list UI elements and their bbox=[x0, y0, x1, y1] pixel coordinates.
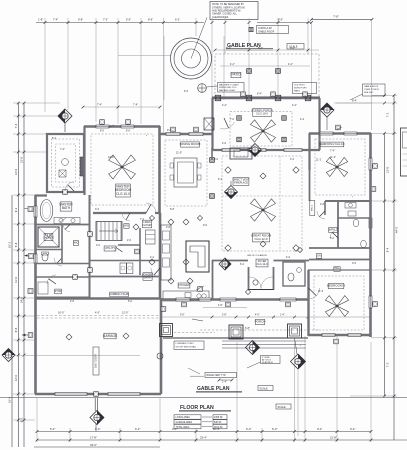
bedroom2 fan bbox=[326, 157, 347, 176]
closet label bbox=[142, 220, 152, 228]
bedroom2 ceiling dash bbox=[315, 139, 365, 195]
svg-text:FLOOR PLAN: FLOOR PLAN bbox=[180, 405, 214, 411]
svg-text:9'-2: 9'-2 bbox=[20, 417, 24, 422]
svg-text:4'-0": 4'-0" bbox=[95, 312, 100, 315]
pantry door bbox=[151, 268, 160, 277]
bath band labels bbox=[316, 228, 337, 259]
bedroom2 dim bbox=[330, 150, 353, 198]
dim ext left l2 bbox=[13, 133, 46, 136]
dining top windows bbox=[166, 127, 203, 135]
washer dryer bbox=[120, 263, 133, 274]
svg-text:2'-8": 2'-8" bbox=[222, 314, 227, 316]
kitchen south wall bbox=[160, 298, 309, 300]
svg-text:SCALE: SCALE bbox=[260, 388, 269, 391]
svg-text:8'-4": 8'-4" bbox=[352, 98, 357, 102]
svg-text:44'-0: 44'-0 bbox=[395, 227, 399, 233]
svg-text:9'-4": 9'-4" bbox=[350, 427, 355, 431]
svg-text:LINE OF CLG ABOVE: LINE OF CLG ABOVE bbox=[247, 254, 267, 257]
master bedroom label bbox=[115, 184, 132, 197]
great room fireplace bbox=[230, 148, 252, 185]
dim extension top ext d bbox=[117, 18, 120, 124]
dim ext left l3 bbox=[13, 151, 46, 154]
wc door bbox=[54, 258, 62, 266]
entry door arcs bbox=[250, 277, 273, 289]
bedroom2 side window bbox=[369, 158, 377, 170]
svg-text:2'-8: 2'-8 bbox=[70, 300, 75, 303]
master bedroom door bbox=[146, 203, 156, 213]
utility label bbox=[104, 246, 116, 251]
south wall tags bbox=[182, 302, 291, 307]
screen porch label bbox=[251, 108, 273, 116]
dining table bbox=[170, 158, 201, 187]
svg-text:8'-6": 8'-6" bbox=[148, 18, 153, 22]
utility cell walls bbox=[90, 228, 160, 277]
bedroom2 window tags bbox=[336, 125, 376, 191]
bedroom3 door bbox=[309, 288, 320, 299]
dimension line left a bbox=[17, 103, 19, 447]
svg-text:SLAB BLW: SLAB BLW bbox=[262, 361, 274, 364]
svg-text:7'-4": 7'-4" bbox=[97, 104, 102, 107]
dining east posts bbox=[210, 148, 215, 198]
stair treads bbox=[96, 222, 122, 241]
bedroom2 left wall bbox=[308, 133, 310, 170]
appliance note bbox=[124, 224, 139, 230]
dimension line bottom c bbox=[34, 446, 160, 448]
entry threshold bbox=[249, 289, 274, 291]
dining ceiling dash bbox=[165, 140, 207, 206]
svg-text:11'-0: 11'-0 bbox=[14, 277, 18, 283]
svg-text:1'-4": 1'-4" bbox=[280, 314, 285, 316]
svg-text:4'-2": 4'-2" bbox=[292, 104, 297, 107]
turret tag bbox=[198, 84, 218, 93]
left wall window tag bbox=[25, 207, 34, 294]
svg-text:OLD TEST: OLD TEST bbox=[294, 85, 305, 87]
master bedroom windows top bbox=[96, 125, 134, 128]
powder label bbox=[142, 273, 153, 281]
column dim bbox=[245, 327, 301, 347]
bath band wall top bbox=[325, 200, 371, 202]
dim ext left l5 bbox=[13, 223, 35, 226]
svg-text:6'-0": 6'-0" bbox=[272, 427, 277, 431]
dim text top1 bbox=[38, 18, 283, 22]
master bedroom top wall bbox=[84, 125, 160, 128]
master bedroom dim bbox=[82, 104, 162, 159]
dim ext bottom b5 bbox=[195, 428, 198, 442]
dim extension top ext i bbox=[224, 18, 227, 54]
dim ext bottom b3 bbox=[119, 428, 122, 442]
svg-text:BEDROOM 2 CLG 9-0: BEDROOM 2 CLG 9-0 bbox=[319, 143, 345, 146]
svg-text:7'-0: 7'-0 bbox=[230, 118, 235, 121]
svg-text:LOWERED CONC.: LOWERED CONC. bbox=[176, 343, 195, 345]
dim ext bottom b9 bbox=[304, 336, 307, 442]
bedroom2 right wall bbox=[369, 133, 372, 201]
svg-text:x: x bbox=[352, 196, 353, 198]
dim extension top ext f bbox=[162, 18, 165, 134]
wic wall bbox=[61, 225, 63, 264]
svg-text:7'-2: 7'-2 bbox=[140, 218, 145, 221]
dim ext bottom b6 bbox=[236, 342, 239, 442]
svg-text:6'-2": 6'-2" bbox=[175, 18, 180, 22]
screen porch windows bbox=[222, 149, 302, 152]
garage side tag bbox=[22, 333, 33, 338]
gable note bbox=[188, 368, 237, 383]
dim ext right r7 bbox=[350, 395, 397, 398]
scale box floor bbox=[276, 404, 291, 409]
svg-text:4'-2": 4'-2" bbox=[230, 63, 235, 66]
svg-text:11'-2": 11'-2" bbox=[330, 156, 336, 159]
porch door to dining bbox=[220, 118, 234, 129]
master bedroom bottom wall bbox=[93, 212, 160, 214]
kitchen label bbox=[178, 283, 190, 288]
hall tag bbox=[135, 249, 140, 254]
svg-text:9'-2: 9'-2 bbox=[14, 207, 18, 212]
bath band toilets bbox=[353, 219, 366, 248]
garage vertical label bbox=[93, 347, 99, 375]
mud room bbox=[35, 275, 90, 294]
svg-text:7'-2: 7'-2 bbox=[386, 112, 390, 117]
dimension line left b bbox=[23, 103, 25, 447]
svg-text:AT STLO: AT STLO bbox=[262, 359, 271, 362]
foyer walls bbox=[212, 260, 309, 299]
svg-text:BATH: BATH bbox=[144, 276, 150, 279]
dim text right bbox=[386, 112, 399, 367]
screen porch ceiling dash bbox=[230, 112, 292, 147]
patio dim line bbox=[214, 46, 319, 52]
svg-text:5-0 SQ: 5-0 SQ bbox=[45, 235, 52, 237]
section marker top left bbox=[58, 109, 72, 132]
patio dim mid bbox=[220, 63, 310, 66]
dim ext left l1 bbox=[13, 115, 60, 118]
porch wall tags bbox=[241, 92, 308, 97]
garage door marker bbox=[90, 392, 104, 432]
garage curb dash bbox=[37, 316, 160, 319]
svg-text:33'-0": 33'-0" bbox=[90, 443, 97, 447]
svg-text:13'-6: 13'-6 bbox=[386, 167, 390, 173]
turret radial bbox=[191, 18, 207, 59]
bedroom3 window tag bbox=[334, 339, 339, 344]
patio outline bbox=[215, 54, 319, 98]
bedroom3 bottom windows bbox=[322, 334, 361, 337]
great room ceiling dash bbox=[222, 156, 302, 251]
master bath fixtures bbox=[59, 148, 68, 177]
garage right wall bbox=[160, 298, 163, 394]
master closet shelves bbox=[63, 157, 84, 194]
porch column c bbox=[288, 324, 302, 338]
svg-text:11'-6: 11'-6 bbox=[318, 290, 324, 293]
patio divider b bbox=[277, 54, 279, 98]
dim extension top m bbox=[310, 21, 313, 100]
bedroom2 label bbox=[319, 142, 345, 147]
interior dims bbox=[52, 90, 357, 303]
svg-text:WIC: WIC bbox=[74, 241, 79, 244]
svg-text:6'-0": 6'-0" bbox=[246, 427, 251, 431]
note box top bbox=[210, 2, 258, 20]
porch note bbox=[247, 356, 280, 369]
scale box bottom a bbox=[258, 386, 273, 391]
porch marker ext bbox=[297, 370, 299, 436]
cupola note bbox=[249, 26, 289, 34]
dim ext bottom b11 bbox=[370, 342, 373, 442]
svg-text:STOR: STOR bbox=[55, 290, 62, 293]
svg-text:4'-2: 4'-2 bbox=[150, 256, 155, 259]
svg-text:1'-4": 1'-4" bbox=[222, 380, 227, 383]
master bedroom fan bbox=[109, 155, 136, 179]
svg-text:14'-6: 14'-6 bbox=[14, 169, 18, 175]
foyer label bbox=[247, 254, 268, 267]
dim ext right r1 bbox=[372, 94, 397, 97]
screen porch left wall bbox=[211, 98, 213, 150]
master bath block ceiling dash bbox=[52, 139, 80, 187]
marker porch right bbox=[291, 338, 306, 369]
dim extension top ext a bbox=[44, 18, 47, 112]
misc leader marks bbox=[60, 125, 342, 295]
kitchen diamonds bbox=[149, 219, 193, 284]
svg-text:SEE DET.: SEE DET. bbox=[364, 92, 374, 94]
dim ext left l4 bbox=[13, 194, 35, 197]
svg-text:BATH: BATH bbox=[62, 206, 71, 210]
svg-text:CLEARANCES.: CLEARANCES. bbox=[212, 16, 229, 19]
svg-text:LIVING AREA: LIVING AREA bbox=[176, 416, 191, 419]
dim ext bottom b10 bbox=[336, 336, 339, 442]
garage marks bbox=[58, 312, 129, 340]
linen cabinet bbox=[146, 230, 156, 244]
svg-text:16'-0": 16'-0" bbox=[58, 312, 64, 315]
svg-text:9'-0: 9'-0 bbox=[167, 129, 172, 132]
left connector bbox=[13, 102, 60, 105]
great room col dashes bbox=[222, 156, 302, 250]
title gable plan bottom bbox=[196, 386, 242, 392]
dim ext right r4 bbox=[371, 200, 397, 203]
svg-text:5'-0: 5'-0 bbox=[128, 300, 133, 303]
master suite hall wall bbox=[89, 195, 91, 298]
svg-text:8'-0": 8'-0" bbox=[226, 46, 231, 50]
svg-text:1'-8": 1'-8" bbox=[38, 18, 43, 22]
marker left edge bbox=[2, 349, 140, 362]
toilet bbox=[42, 252, 49, 261]
svg-text:SHOWER: SHOWER bbox=[43, 238, 54, 240]
title floor plan bbox=[179, 405, 231, 412]
svg-text:5'-2: 5'-2 bbox=[52, 137, 57, 140]
svg-text:RIDGE VENT TYP.: RIDGE VENT TYP. bbox=[207, 375, 227, 377]
svg-text:4'-4: 4'-4 bbox=[300, 118, 305, 121]
garage label above bbox=[109, 292, 129, 297]
dim extension top n bbox=[371, 19, 373, 130]
legend box right bbox=[401, 128, 407, 176]
great room diamonds bbox=[225, 167, 299, 251]
svg-text:CLOSET: CLOSET bbox=[142, 224, 152, 227]
svg-text:14'-8": 14'-8" bbox=[108, 156, 114, 159]
svg-text:4'-0": 4'-0" bbox=[255, 314, 260, 316]
kitchen west wall bbox=[159, 213, 162, 299]
svg-text:8'-0": 8'-0" bbox=[258, 46, 263, 50]
screen porch top wall bbox=[212, 97, 320, 98]
svg-text:16x7 DOOR: 16x7 DOOR bbox=[95, 354, 98, 368]
svg-text:MAX WEST COAST: MAX WEST COAST bbox=[219, 83, 239, 86]
svg-text:7'-4": 7'-4" bbox=[133, 104, 138, 107]
corridor dim row bbox=[161, 305, 371, 321]
linen wall bbox=[35, 263, 90, 265]
dim extension top ext h bbox=[211, 18, 214, 100]
master bedroom right wall bbox=[158, 126, 161, 214]
dim ext right r6 bbox=[371, 336, 397, 339]
dim ext left l6 bbox=[13, 249, 35, 252]
porch label bbox=[255, 319, 266, 324]
svg-text:21'-8: 21'-8 bbox=[20, 157, 24, 163]
svg-text:7'-4": 7'-4" bbox=[330, 150, 335, 153]
svg-text:9'-4: 9'-4 bbox=[386, 247, 390, 252]
svg-text:PORCH: PORCH bbox=[255, 320, 266, 324]
dining niche bbox=[204, 118, 214, 130]
dim ext right r2 bbox=[336, 102, 397, 105]
dimension line top bbox=[36, 22, 311, 24]
hall walls b bbox=[90, 260, 160, 262]
svg-text:STOOP SEE DETAIL: STOOP SEE DETAIL bbox=[176, 346, 197, 349]
bedroom3 left wall bbox=[307, 270, 309, 336]
svg-text:GABLE ROOF: GABLE ROOF bbox=[258, 31, 275, 34]
kitchen counters bbox=[163, 287, 209, 301]
dim ext bottom b4 bbox=[159, 398, 162, 442]
svg-text:8'-4": 8'-4" bbox=[257, 93, 262, 96]
svg-text:17'-8": 17'-8" bbox=[90, 436, 97, 440]
dim ext bottom b2 bbox=[69, 428, 72, 442]
dressing door bbox=[122, 213, 130, 221]
dim text bottom1 bbox=[50, 427, 355, 431]
floor plan area rows bbox=[174, 415, 227, 429]
screen porch posts bbox=[215, 95, 310, 100]
marker bedroom2 top bbox=[320, 98, 372, 130]
kitchen island bbox=[186, 241, 209, 272]
garage top wall bbox=[35, 297, 161, 299]
dim ext bottom b7 bbox=[261, 428, 264, 442]
svg-text:3104 SF: 3104 SF bbox=[214, 427, 223, 429]
svg-text:9'-6: 9'-6 bbox=[203, 224, 208, 227]
great room fan bbox=[251, 199, 276, 221]
svg-text:23'-4": 23'-4" bbox=[200, 436, 207, 440]
bedroom3 side window bbox=[369, 296, 377, 308]
note box left of porch bbox=[218, 83, 245, 93]
master bath door bbox=[65, 182, 74, 191]
svg-text:GARAGE: GARAGE bbox=[103, 334, 118, 338]
svg-text:SURV PORT: SURV PORT bbox=[294, 88, 307, 90]
svg-text:2456 SF: 2456 SF bbox=[214, 417, 223, 419]
dim ext left l10 bbox=[13, 339, 35, 342]
svg-text:3'-0: 3'-0 bbox=[96, 244, 101, 247]
bedroom3 label bbox=[327, 283, 345, 288]
svg-text:4'-8: 4'-8 bbox=[320, 203, 325, 206]
garage label bbox=[103, 333, 118, 339]
svg-text:KITCHEN: KITCHEN bbox=[178, 283, 190, 287]
marker porch left bbox=[246, 341, 260, 355]
dim text bottom2 bbox=[90, 436, 337, 440]
great room label bbox=[251, 233, 272, 242]
bedroom3 bottom wall bbox=[308, 334, 371, 337]
turret circle mid bbox=[174, 42, 208, 76]
dim ext left l12 bbox=[13, 393, 35, 396]
dim extension top ext b bbox=[67, 18, 70, 110]
marker great bbox=[225, 181, 238, 199]
bedroom3 ceiling dash bbox=[314, 276, 364, 330]
dimension line bottom a bbox=[37, 431, 371, 433]
svg-text:CLG 10-0: CLG 10-0 bbox=[116, 192, 130, 196]
bath band walls bbox=[309, 170, 371, 248]
bedroom2 windows bbox=[320, 132, 357, 135]
svg-text:CLG 10-0: CLG 10-0 bbox=[256, 112, 268, 116]
master bedroom left wall bbox=[83, 126, 85, 195]
dim ext left l8 bbox=[13, 297, 35, 300]
dim ext bottom b8 bbox=[293, 342, 296, 442]
dim ext left l11 bbox=[7, 354, 25, 357]
svg-text:6'-4: 6'-4 bbox=[218, 178, 223, 181]
svg-text:SCALE: SCALE bbox=[278, 406, 287, 409]
title gable plan top bbox=[226, 43, 273, 50]
svg-text:11'-0": 11'-0" bbox=[176, 151, 182, 154]
svg-text:FANS: FANS bbox=[294, 90, 300, 93]
dimension line bottom b bbox=[37, 439, 407, 441]
garage left label bbox=[55, 289, 62, 294]
svg-text:4'-6: 4'-6 bbox=[222, 142, 227, 145]
svg-text:LIN: LIN bbox=[317, 254, 321, 257]
svg-text:3'-2: 3'-2 bbox=[290, 158, 295, 161]
svg-text:24'-0: 24'-0 bbox=[20, 297, 24, 303]
svg-text:DINING ROOM: DINING ROOM bbox=[180, 142, 201, 146]
turret circle inner bbox=[182, 49, 201, 68]
svg-text:9'-0": 9'-0" bbox=[180, 314, 185, 316]
lowered note bbox=[174, 341, 204, 350]
turret drop lines bbox=[118, 36, 224, 100]
svg-text:7'-4: 7'-4 bbox=[14, 123, 18, 128]
svg-text:CURBED 4 SLAB: CURBED 4 SLAB bbox=[109, 293, 129, 296]
garage bottom doors bbox=[55, 393, 140, 396]
dim text left bbox=[8, 123, 24, 422]
svg-text:UTILITY: UTILITY bbox=[105, 246, 116, 250]
wc wall bbox=[35, 249, 62, 251]
svg-text:6'-6: 6'-6 bbox=[184, 90, 189, 93]
stair arrow bbox=[99, 229, 118, 233]
svg-text:7'-2: 7'-2 bbox=[386, 362, 390, 367]
porch roof dash bbox=[174, 330, 320, 333]
svg-text:BATH 2: BATH 2 bbox=[329, 228, 338, 231]
tub bbox=[40, 200, 53, 222]
screen porch bottom wall bbox=[212, 149, 320, 151]
patio post b bbox=[276, 69, 281, 74]
porch column b bbox=[229, 325, 243, 339]
master bedroom window tags bbox=[100, 120, 131, 125]
garage right tags bbox=[157, 307, 166, 359]
left wing step wall bbox=[35, 194, 47, 196]
garage bottom wall bbox=[35, 393, 161, 396]
south wall windows bbox=[176, 298, 296, 301]
svg-text:2'-8: 2'-8 bbox=[166, 226, 171, 229]
dim extension top ext e bbox=[140, 18, 143, 124]
svg-text:4'-2": 4'-2" bbox=[222, 104, 227, 107]
svg-text:7'-4": 7'-4" bbox=[60, 148, 65, 151]
svg-text:6'-2": 6'-2" bbox=[135, 427, 140, 431]
svg-text:6'-2: 6'-2 bbox=[240, 263, 245, 266]
svg-text:6'-0: 6'-0 bbox=[126, 130, 131, 133]
dimension line top right bbox=[310, 15, 373, 21]
svg-text:8'-0": 8'-0" bbox=[278, 18, 283, 22]
dim extension top ext c bbox=[95, 18, 98, 122]
patio post a bbox=[247, 69, 252, 74]
dim ext left l9 bbox=[13, 315, 35, 318]
svg-text:12'-0": 12'-0" bbox=[122, 312, 128, 315]
wic1 label bbox=[310, 201, 315, 216]
svg-text:5'-8: 5'-8 bbox=[14, 242, 18, 247]
svg-text:11'-2: 11'-2 bbox=[316, 159, 322, 162]
svg-text:GABLE ROOF: GABLE ROOF bbox=[364, 85, 379, 88]
dim text bottom3 bbox=[90, 443, 97, 447]
bedroom3 fan bbox=[325, 296, 348, 317]
